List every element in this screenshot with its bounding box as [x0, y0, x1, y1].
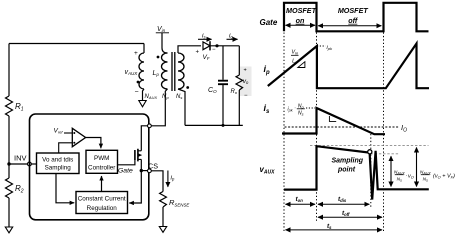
resistor R1: [6, 96, 13, 116]
dimension arrow t_s: [286, 223, 383, 230]
wire Rsense to ground: [162, 207, 164, 227]
pin INV (open circle): [28, 162, 32, 166]
op-amp input marker dots: [73, 132, 75, 144]
diode VF: [203, 41, 210, 50]
IC controller box: [30, 114, 149, 220]
wire sampling block to op-amp: [59, 143, 73, 153]
highlight box behind vo: [240, 67, 252, 97]
wire top-left horizontal from divider to aux winding: [9, 43, 144, 45]
dotted gridline end of tdis: [370, 134, 372, 209]
label Ns: [176, 94, 182, 100]
label + VF -: [196, 47, 217, 61]
current arrow io: [227, 33, 238, 40]
label CS: [148, 162, 158, 171]
label MOSFET off: [338, 6, 369, 25]
supply Vin label: [156, 26, 169, 33]
svg-text:Sampling: Sampling: [45, 165, 72, 172]
wire source to CS: [140, 159, 142, 170]
svg-text:Ro: Ro: [231, 89, 238, 95]
dimension arrow t_on: [286, 196, 316, 204]
op-amp U1 error comparator: [72, 128, 85, 146]
wire CC regulation to PWM controller: [101, 176, 103, 192]
wire aux to ground arrow: [143, 89, 145, 101]
svg-text:Vo and tdis: Vo and tdis: [42, 157, 73, 164]
dashed level line (Vo+VF) reflected: [310, 145, 429, 147]
svg-text:Constant Current: Constant Current: [78, 196, 126, 203]
svg-text:Lp: Lp: [292, 59, 298, 65]
label Sampling point: [332, 158, 364, 174]
svg-text:NAUX: NAUX: [145, 94, 158, 100]
resistor R2: [6, 178, 13, 198]
wire left vertical to R1: [8, 44, 10, 97]
capacitor CO: [218, 81, 228, 85]
resistor RSENSE: [160, 192, 167, 207]
wire diode to output: [210, 45, 239, 47]
waveform ip trace: [268, 44, 429, 89]
node rail junction: [222, 124, 225, 127]
svg-text:Regulation: Regulation: [87, 205, 118, 212]
wire op-amp to PWM controller: [86, 138, 101, 149]
label Np: [162, 94, 169, 100]
wire Vref to op-amp: [64, 132, 72, 134]
wire R1 to INV node: [8, 116, 10, 164]
wire capacitor to rail: [222, 84, 224, 125]
svg-text:−: −: [135, 89, 139, 96]
label Vref: [54, 128, 64, 135]
wire Ro to rail: [238, 90, 240, 125]
wire drain pin into box: [141, 126, 147, 151]
ground (Rsense): [159, 227, 166, 233]
marker sampling point circle: [368, 150, 372, 154]
block PWM Controller: [86, 150, 118, 173]
svg-text:Controller: Controller: [88, 165, 115, 172]
svg-text:MOSFET: MOSFET: [338, 6, 369, 15]
aux phase dot: [137, 81, 140, 84]
wire gate lead from PWM: [118, 160, 135, 165]
label NAUX/Ns (Vo+VF): [420, 170, 455, 183]
svg-text:Sampling: Sampling: [332, 158, 364, 165]
svg-text:point: point: [337, 167, 356, 174]
wire sampling block to CC regulation: [56, 174, 74, 203]
label Gate: [118, 168, 133, 175]
svg-text:−: −: [212, 47, 216, 53]
dimension arrow t_off: [318, 210, 382, 217]
label slope Vin/Lp: [291, 50, 299, 65]
resistor Ro: [236, 75, 243, 90]
wire output ground rail: [185, 124, 243, 126]
wire INV to pin: [9, 163, 28, 165]
dashed level line Vo sampling: [371, 153, 399, 155]
wire Vin to primary: [162, 33, 168, 53]
dotted gridline turn-off: [316, 33, 318, 223]
label vo with polarity: [243, 68, 249, 100]
svg-text:INV: INV: [14, 154, 27, 163]
node CS junction: [140, 169, 143, 172]
slope triangle ip: [298, 62, 305, 68]
svg-text:+: +: [244, 68, 247, 74]
current arrow ip (sense): [168, 171, 175, 187]
label ipk: [327, 45, 333, 51]
wire CS feedback to CC block: [129, 171, 141, 203]
dimension arrow off-time: [318, 25, 381, 27]
svg-text:Vin: Vin: [291, 50, 299, 56]
wire aux winding feed: [143, 44, 145, 54]
waveform is trace: [282, 108, 385, 134]
node output junction: [215, 44, 218, 47]
label IO: [401, 123, 407, 133]
wire to load resistor: [238, 46, 240, 75]
svg-text:+: +: [196, 50, 200, 56]
label Lp: [153, 70, 160, 77]
block Constant Current Regulation: [76, 192, 128, 214]
node INV junction: [7, 162, 10, 165]
wire output node to capacitor: [222, 46, 224, 80]
label NAUX/Ns Vo: [394, 170, 414, 183]
svg-text:Gate: Gate: [118, 168, 133, 175]
wire primary bottom to drain pin: [151, 89, 167, 126]
waveform axis label Gate: [260, 18, 278, 27]
pin drain (open circle): [148, 124, 152, 128]
wire INV to R2: [8, 164, 10, 178]
svg-text:−: −: [244, 93, 248, 99]
svg-text:off: off: [348, 16, 358, 25]
leader dotted ipk: [317, 45, 326, 47]
waveform gate trace: [284, 3, 429, 32]
winding primary Lp coil: [162, 53, 168, 89]
dimension arrow t_dis: [318, 196, 369, 204]
winding secondary Ns coil: [178, 53, 184, 89]
dimension arrow NAUX/Ns Vo: [390, 156, 392, 186]
wire R2 to ground: [8, 198, 10, 227]
waveform axis label ip: [264, 64, 271, 76]
svg-text:PWM: PWM: [94, 155, 109, 162]
ground (aux winding): [139, 101, 146, 107]
svg-text:on: on: [296, 16, 305, 25]
transformer core: [172, 52, 175, 91]
svg-text:+: +: [134, 50, 138, 57]
pin CS (open circle): [148, 169, 152, 173]
waveform axis label vAUX: [260, 165, 276, 175]
aux polarity +: [134, 50, 138, 57]
dimension arrow NAUX/Ns (Vo+VF): [416, 148, 418, 187]
wire CS pin to Rsense: [151, 171, 163, 192]
dotted gridline t0: [283, 33, 285, 234]
label ipk Np/Ns: [288, 104, 305, 117]
svg-text:Gate: Gate: [260, 18, 278, 27]
node label INV: [14, 154, 27, 163]
dimension arrow on-time: [286, 24, 316, 26]
label N_AUX: [145, 94, 158, 100]
svg-text:vO: vO: [408, 174, 414, 180]
block Vo and tdis Sampling: [37, 153, 80, 174]
dashed level line IO: [285, 126, 400, 128]
label MOSFET on: [286, 6, 317, 25]
secondary phase dot: [186, 86, 189, 89]
wire secondary top to diode: [178, 46, 201, 53]
waveform vAUX trace: [284, 146, 429, 199]
slope triangle is: [329, 116, 336, 121]
ground (divider): [5, 227, 12, 233]
svg-text:MOSFET: MOSFET: [286, 6, 317, 15]
svg-text:(vO + VF): (vO + VF): [433, 174, 455, 180]
svg-text:Ns: Ns: [176, 94, 182, 100]
waveform axis label is: [264, 103, 271, 115]
transistor Q1 power MOSFET: [135, 149, 138, 162]
current arrow is (diode): [198, 33, 212, 40]
dotted gridline next turn-on: [383, 33, 385, 234]
leader dotted is peak: [306, 107, 315, 109]
wire secondary bottom: [178, 89, 185, 125]
label vAUX: [125, 69, 139, 76]
winding N_AUX coil: [139, 53, 144, 89]
wire pin to sampling block: [31, 163, 36, 165]
aux polarity -: [135, 89, 139, 96]
wire CS to pin: [141, 170, 147, 172]
primary phase dot: [157, 56, 160, 59]
